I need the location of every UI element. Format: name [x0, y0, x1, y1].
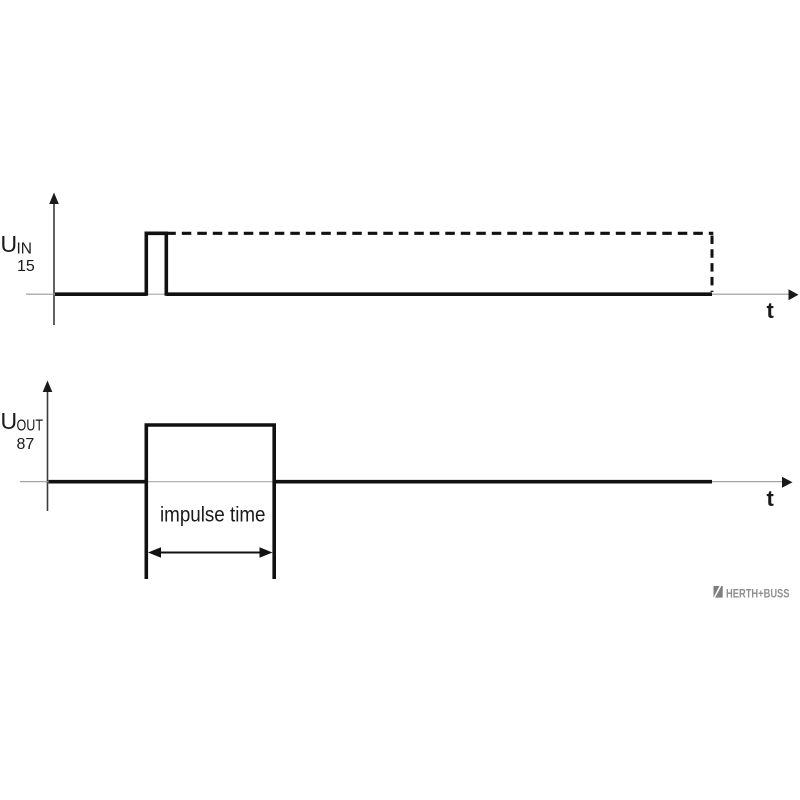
- svg-text:impulse time: impulse time: [160, 504, 266, 527]
- axis Y (U_IN): [49, 193, 59, 326]
- axis X thin extension (U_IN): [712, 293, 790, 295]
- wire baseline U_OUT before pulse: [49, 480, 147, 484]
- dimension arrow impulse time: [148, 547, 273, 558]
- label U_OUT 87: [1, 408, 44, 453]
- axis X thin segment left of origin (U_OUT): [20, 481, 51, 483]
- logo HERTH+BUSS: [714, 586, 790, 600]
- svg-text:t: t: [767, 298, 775, 323]
- axis X thin extension (U_OUT): [712, 481, 785, 483]
- wire input pulse (terminal 15 trigger): [146, 233, 166, 295]
- svg-text:87: 87: [17, 436, 35, 453]
- wire baseline U_IN before pulse: [55, 292, 146, 296]
- axis Y (U_OUT): [43, 381, 53, 512]
- label U_IN 15: [1, 231, 35, 275]
- node baseline thin under input pulse: [147, 293, 166, 295]
- axis X thin segment left of origin (U_IN): [26, 293, 58, 295]
- axis X arrowhead (U_OUT): [782, 477, 793, 488]
- svg-text:U: U: [1, 231, 18, 257]
- svg-text:HERTH+BUSS: HERTH+BUSS: [726, 588, 790, 600]
- svg-text:U: U: [1, 408, 18, 434]
- svg-text:IN: IN: [17, 241, 33, 258]
- wire dashed falling edge: [711, 236, 714, 293]
- wire output pulse (terminal 87 energised) with measurement droplines: [146, 425, 274, 579]
- svg-text:15: 15: [17, 258, 35, 275]
- wire dashed hold level (relay held): [166, 232, 713, 235]
- wire baseline U_OUT after pulse: [274, 480, 712, 484]
- wire baseline U_IN after pulse: [166, 292, 712, 296]
- svg-text:OUT: OUT: [17, 418, 44, 435]
- svg-text:t: t: [767, 486, 775, 511]
- node baseline thin under output pulse: [147, 481, 274, 483]
- axis X arrowhead (U_IN): [789, 289, 799, 300]
